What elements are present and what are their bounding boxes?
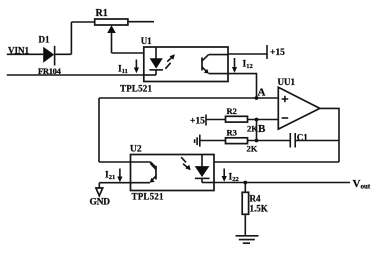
svg-text:R3: R3 (227, 128, 237, 138)
svg-text:U1: U1 (141, 36, 152, 46)
svg-text:D1: D1 (39, 35, 50, 45)
svg-text:1.5K: 1.5K (250, 204, 268, 214)
svg-text:A: A (258, 87, 266, 99)
svg-text:+15: +15 (190, 117, 205, 127)
svg-text:U2: U2 (130, 145, 142, 155)
svg-text:UU1: UU1 (278, 77, 296, 87)
svg-text:GND: GND (90, 198, 111, 208)
svg-text:TPL521: TPL521 (132, 192, 165, 202)
svg-text:+15: +15 (270, 48, 285, 58)
svg-text:R1: R1 (96, 8, 108, 19)
svg-text:2K: 2K (247, 144, 258, 154)
svg-text:B: B (258, 123, 266, 135)
svg-text:R2: R2 (227, 106, 237, 116)
svg-text:R4: R4 (250, 194, 261, 204)
svg-text:TPL521: TPL521 (120, 84, 153, 94)
